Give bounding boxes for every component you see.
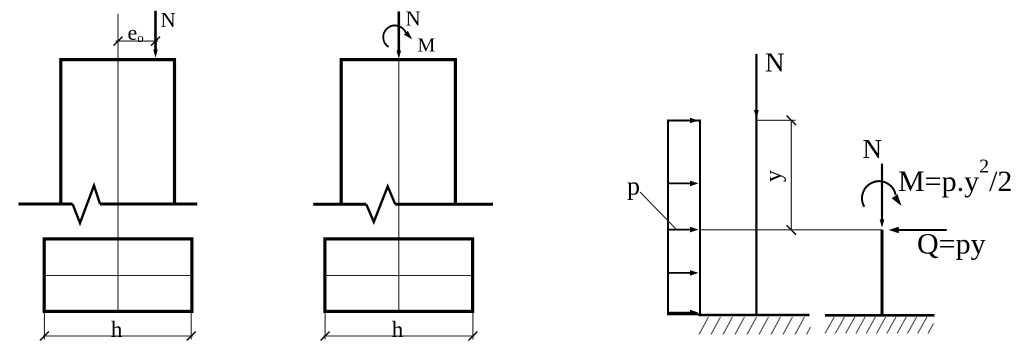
tick h left [40, 332, 49, 341]
column outline (middle) [341, 60, 455, 205]
force N arrowhead (left) [153, 50, 158, 58]
break line left segment (middle) [313, 203, 366, 206]
svg-text:N: N [765, 48, 785, 78]
load arrow 5 [669, 312, 691, 314]
tick h right (middle) [468, 332, 477, 341]
shear force Q arrow shaft [895, 229, 947, 231]
break line right segment [100, 203, 197, 206]
tick e0 left [114, 37, 123, 46]
svg-text:Q=py: Q=py [917, 228, 986, 261]
force N arrowhead on column 1 [754, 110, 759, 119]
column outline (left) [61, 60, 175, 204]
extension line left h (middle) [324, 313, 326, 340]
svg-text:eo: eo [128, 20, 144, 45]
column 2 (below section) [881, 230, 884, 315]
break zigzag (left) [73, 186, 100, 224]
svg-text:p: p [627, 172, 640, 201]
moment arc M (middle) [383, 25, 406, 47]
shear force Q arrowhead [889, 227, 899, 233]
dimension line h (left) [43, 335, 193, 337]
svg-text:N: N [863, 134, 883, 164]
break line left segment [19, 203, 73, 206]
ground line 2 [825, 314, 935, 317]
extension line right h (middle) [472, 313, 474, 340]
force N arrowhead (column 2) [880, 220, 885, 228]
tick h left (middle) [321, 332, 330, 341]
foundation outline (left) [44, 239, 192, 312]
svg-text:h: h [111, 317, 123, 342]
tick h right [187, 332, 196, 341]
section line [700, 229, 882, 231]
load arrow 1 [669, 120, 691, 122]
svg-text:N: N [406, 7, 421, 31]
centerline (middle column axis) [398, 60, 400, 312]
foundation outline (middle) [325, 239, 473, 312]
foundation mid line (left) [44, 275, 192, 277]
ground 1 hatching [699, 317, 811, 335]
ground line 1 [699, 314, 810, 317]
break zigzag (middle) [366, 186, 395, 222]
centerline (left column axis) [117, 14, 119, 312]
tick y top [787, 116, 797, 126]
column 1 (right figure) [755, 54, 757, 315]
dimension line e0 [116, 40, 159, 42]
svg-text:N: N [161, 8, 176, 32]
distributed load rectangle [668, 121, 700, 315]
tick y bottom [787, 225, 797, 235]
force N shaft (left, eccentric) [154, 11, 157, 52]
y-dimension top line [756, 119, 795, 121]
moment arc M (column 2) [862, 181, 896, 206]
force N shaft (middle) [397, 11, 400, 52]
tick e0 right [151, 37, 160, 46]
y-dimension vertical line [790, 120, 792, 230]
svg-text:y: y [761, 170, 787, 182]
dimension line h (middle) [324, 335, 475, 337]
svg-text:h: h [392, 317, 404, 342]
foundation mid line (middle) [325, 275, 473, 277]
extension line right h [190, 313, 192, 340]
ground 2 hatching [825, 317, 934, 334]
svg-text:M=p.y2/2: M=p.y2/2 [898, 155, 1012, 198]
svg-text:M: M [418, 35, 436, 57]
extension line left h [43, 313, 45, 340]
load arrow 4 [669, 272, 691, 274]
force N shaft (column 2) [881, 164, 883, 221]
load arrow 3 [669, 229, 691, 231]
load arrow 2 [669, 182, 691, 184]
break line right segment (middle) [395, 203, 493, 206]
force N arrowhead (middle) [397, 51, 402, 59]
leader line from p [640, 192, 676, 229]
